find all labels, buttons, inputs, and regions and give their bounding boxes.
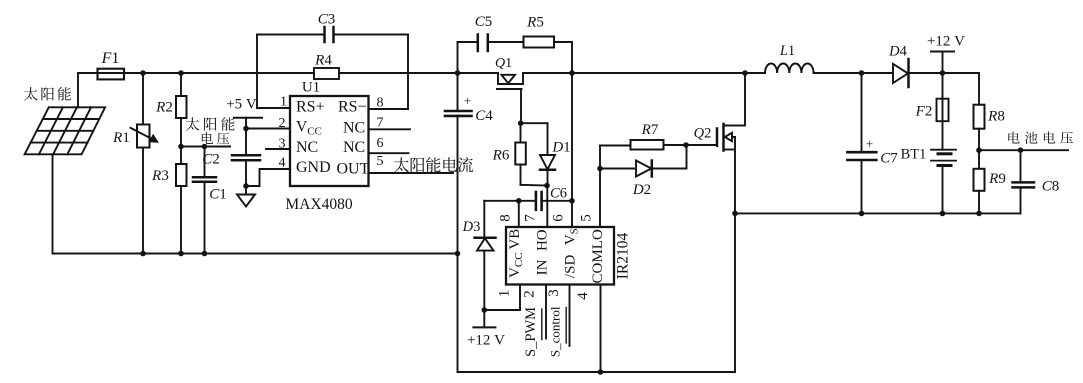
capacitor C4 electrolytic (457, 73, 459, 111)
svg-text:VB: VB (507, 229, 523, 250)
svg-text:BT1: BT1 (901, 147, 927, 163)
node C4 (455, 70, 461, 76)
wire COM pin4 to rail (600, 285, 602, 373)
supply +12V right (931, 51, 954, 53)
wire Vs pin6 (571, 73, 573, 227)
svg-text:4: 4 (575, 292, 591, 300)
fuse F1 (98, 72, 123, 74)
capacitor C2 (245, 129, 247, 156)
svg-text:1: 1 (280, 95, 287, 110)
svg-text:RS+: RS+ (296, 99, 325, 116)
svg-text:+5 V: +5 V (226, 97, 257, 113)
label 电池电压 battery voltage (1008, 131, 1019, 143)
svg-text:8: 8 (498, 214, 514, 222)
svg-text:Q2: Q2 (694, 126, 712, 142)
wire IN pin2 S_PWM (545, 285, 547, 339)
svg-text:NC: NC (296, 139, 318, 156)
wire pin8 RS- (369, 108, 409, 110)
resistor R3 (180, 147, 182, 165)
svg-text:NC: NC (343, 139, 365, 156)
svg-text:5: 5 (377, 154, 384, 169)
capacitor C3 (257, 34, 325, 36)
wire R5 to switch node (554, 42, 572, 73)
wire pin5 OUT 太阳能电流 (369, 172, 454, 174)
svg-text:R3: R3 (151, 168, 169, 184)
node C7 tap (859, 70, 865, 76)
svg-text:2: 2 (522, 290, 538, 298)
svg-text:Q1: Q1 (495, 56, 512, 71)
node BT1 gnd (940, 211, 946, 217)
wire +5V to pin2 (246, 128, 290, 130)
capacitor C6 bootstrap (484, 200, 536, 202)
svg-text:COM: COM (590, 249, 606, 283)
resistor R5 (524, 37, 555, 48)
node C4 gnd (455, 251, 461, 257)
svg-text:C1: C1 (209, 187, 227, 203)
svg-text:R8: R8 (987, 109, 1005, 125)
svg-text:D3: D3 (462, 219, 481, 235)
supply +12V left (473, 326, 495, 328)
svg-text:+: + (464, 93, 471, 108)
resistor R6 (520, 123, 522, 142)
svg-text:2: 2 (279, 116, 286, 131)
capacitor C1 (204, 147, 206, 178)
capacitor C5 snubber (458, 42, 478, 73)
svg-text:HO: HO (534, 229, 550, 251)
wire pin1 RS+ (257, 107, 290, 109)
svg-text:U1: U1 (302, 80, 320, 96)
node Vs C6 (569, 198, 575, 204)
node switch (569, 70, 575, 76)
node C7 gnd (859, 211, 865, 217)
ground rail bottom (458, 254, 736, 373)
node R2 bus (178, 70, 184, 76)
svg-text:C6: C6 (550, 186, 567, 202)
diode D2 (600, 168, 636, 170)
node R1 bus (140, 70, 146, 76)
label 太阳能 solar (24, 87, 38, 100)
capacitor C8 (1020, 150, 1022, 182)
wire pin7 NC stub (369, 128, 411, 130)
wire VB pin8 (518, 201, 520, 227)
wire pin6 NC stub (369, 152, 409, 154)
node source rail (732, 211, 738, 217)
resistor R7 (600, 145, 631, 147)
svg-text:L1: L1 (779, 43, 795, 59)
transistor Q2 NMOS (686, 144, 717, 146)
resistor R4 shunt (314, 68, 339, 79)
wire /SD pin3 S_control (569, 285, 571, 347)
svg-text:1: 1 (497, 290, 513, 298)
solar panel PV (25, 107, 106, 154)
svg-text:IN: IN (534, 259, 550, 275)
label 太阳能电压 solar voltage (186, 117, 200, 130)
svg-text:+12 V: +12 V (927, 34, 965, 50)
svg-text:MAX4080: MAX4080 (285, 196, 352, 213)
sense loop right vertical RS- (407, 35, 409, 110)
node D2 tap (597, 166, 603, 172)
svg-text:GND: GND (296, 159, 331, 176)
svg-text:R1: R1 (112, 130, 130, 146)
svg-text:6: 6 (377, 136, 384, 151)
svg-text:+12 V: +12 V (467, 333, 505, 349)
sense loop left vertical RS+ (256, 35, 258, 109)
node R6 D1 (544, 183, 550, 189)
wire gate node to D1 (521, 122, 548, 124)
diode D1 (547, 123, 549, 155)
svg-text:C2: C2 (202, 152, 220, 168)
wire L1 to D4 (814, 72, 893, 74)
svg-text:NC: NC (343, 120, 365, 137)
wire bus R4 to C4 node (339, 72, 458, 74)
svg-text:RS−: RS− (338, 99, 367, 116)
capacitor C7 electrolytic (861, 73, 863, 152)
svg-text:F1: F1 (101, 50, 120, 67)
node R9 gnd (976, 211, 982, 217)
ground rail left (53, 253, 458, 255)
node analog gnd (243, 183, 249, 189)
svg-text:3: 3 (546, 289, 562, 297)
node +5V Vcc (243, 126, 249, 132)
resistor R2 (180, 73, 182, 96)
diode D3 bootstrap (483, 201, 485, 238)
svg-text:C4: C4 (475, 108, 493, 124)
svg-text:7: 7 (523, 214, 539, 222)
svg-text:4: 4 (279, 156, 286, 171)
svg-text:/SD: /SD (563, 255, 579, 279)
wire HO pin7 (546, 186, 548, 228)
wire LO pin5 (599, 146, 601, 228)
svg-text:OUT: OUT (337, 160, 370, 177)
svg-text:8: 8 (377, 96, 384, 111)
svg-text:IR2104: IR2104 (615, 233, 632, 280)
wire panel top to bus (78, 73, 98, 107)
node D3 +12V (482, 307, 488, 313)
wire Q2 source riser (734, 150, 736, 373)
wire pin3 NC stub (266, 148, 290, 150)
node battery voltage (976, 147, 982, 153)
svg-text:F2: F2 (915, 104, 933, 120)
wire divider stub 太阳能电压 (181, 146, 230, 148)
wire Q1 gate (520, 89, 522, 123)
node R3 gnd (178, 251, 184, 257)
wire GND pin4 to ground node (246, 169, 290, 186)
svg-text:C7: C7 (880, 151, 898, 167)
wire bus Q1 to Q2 (523, 72, 765, 74)
svg-text:7: 7 (377, 116, 384, 131)
ground rail right (735, 212, 1021, 214)
wire pin1 Vcc to +12V (484, 285, 520, 311)
node Q1 gate (518, 120, 524, 126)
node Q2 drain (742, 70, 748, 76)
svg-text:R6: R6 (492, 148, 510, 164)
resistor R8 (978, 73, 980, 105)
svg-text:S_control: S_control (548, 306, 563, 357)
svg-text:C8: C8 (1042, 179, 1060, 195)
node R1 gnd (140, 251, 146, 257)
wire bus F1 to R4 (123, 72, 314, 74)
gate-driver U2 IR2104 (506, 227, 614, 285)
node R2 R3 divider (178, 144, 184, 150)
node VB C6 (516, 198, 522, 204)
svg-text:R2: R2 (155, 100, 173, 116)
node Q2 gate (683, 142, 689, 148)
wire panel bottom to ground rail (52, 154, 54, 253)
node +12V (940, 70, 946, 76)
node COM gnd (598, 369, 604, 375)
resistor R9 (978, 150, 980, 169)
svg-text:R5: R5 (526, 15, 544, 31)
svg-text:LO: LO (590, 229, 606, 249)
ground symbol (245, 186, 247, 195)
svg-text:6: 6 (551, 214, 567, 222)
svg-text:R7: R7 (641, 122, 659, 138)
svg-text:C3: C3 (318, 12, 336, 28)
svg-text:R4: R4 (314, 52, 332, 68)
diode D4 (893, 64, 908, 83)
inductor L1 (765, 63, 814, 73)
battery BT1 (931, 149, 956, 151)
resistor R1 varistor (142, 73, 144, 125)
svg-text:D1: D1 (551, 140, 570, 156)
transistor Q1 PMOS (458, 72, 499, 74)
svg-text:S_PWM: S_PWM (523, 307, 539, 357)
supply +5V (234, 117, 262, 119)
label 太阳能电流 solar current (394, 157, 409, 172)
wire 电池电压 (979, 149, 1068, 151)
svg-text:5: 5 (579, 214, 595, 222)
svg-text:+: + (866, 136, 873, 151)
svg-text:R9: R9 (988, 171, 1006, 187)
node C8 tap (1018, 147, 1024, 153)
node C1 tap (202, 144, 208, 150)
svg-text:D2: D2 (632, 182, 651, 198)
svg-text:D4: D4 (888, 44, 907, 60)
node C1 gnd (202, 251, 208, 257)
op-amp U1 MAX4080 (290, 96, 369, 186)
svg-text:C5: C5 (475, 14, 493, 30)
fuse F2 (942, 73, 944, 150)
